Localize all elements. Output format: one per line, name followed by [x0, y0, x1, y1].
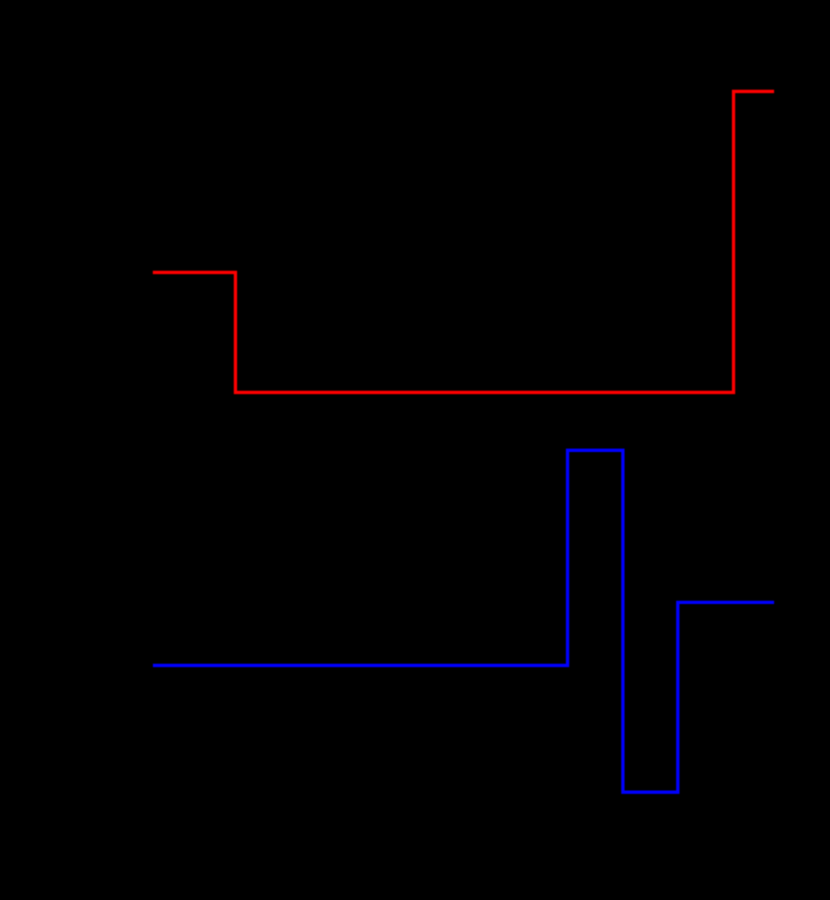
blue step trace [153, 450, 774, 792]
red step trace [153, 91, 774, 392]
